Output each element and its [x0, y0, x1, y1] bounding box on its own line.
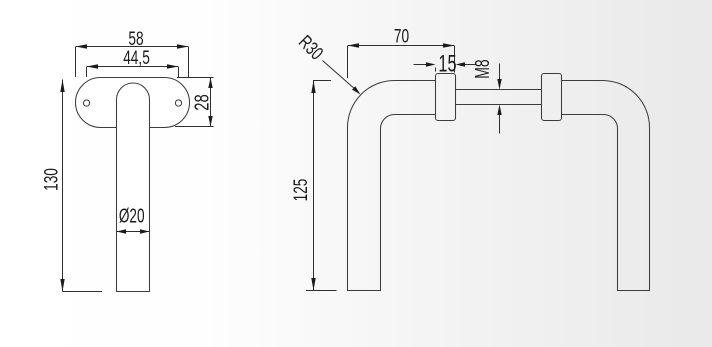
svg-text:M8: M8 [470, 59, 493, 78]
svg-text:44,5: 44,5 [123, 47, 150, 69]
dimension 130 [40, 80, 102, 292]
dimension 44,5 [87, 47, 179, 77]
radius callout R30 [294, 31, 360, 95]
collar left [436, 74, 456, 121]
screw hole left [83, 100, 89, 106]
svg-text:15: 15 [438, 50, 456, 77]
dimension 15 [414, 50, 477, 77]
dimension 70 [348, 25, 455, 78]
screw hole right [175, 100, 181, 106]
dimension M8 [470, 59, 501, 133]
dimension 125 [290, 81, 337, 291]
svg-text:Ø20: Ø20 [119, 205, 145, 227]
svg-text:70: 70 [394, 25, 409, 47]
svg-text:125: 125 [290, 179, 312, 202]
svg-text:130: 130 [40, 168, 62, 191]
collar right [542, 74, 562, 121]
right handle (side view) [562, 81, 650, 291]
handle neck (front view) [117, 83, 150, 291]
dimension 28 [175, 78, 214, 127]
rosette plate (front view) [76, 78, 190, 128]
dimension Ø20 [117, 205, 150, 234]
svg-text:28: 28 [190, 94, 213, 110]
dimension 58 [76, 28, 189, 77]
left handle (side view) [348, 81, 436, 291]
spindle M8 [456, 90, 542, 105]
